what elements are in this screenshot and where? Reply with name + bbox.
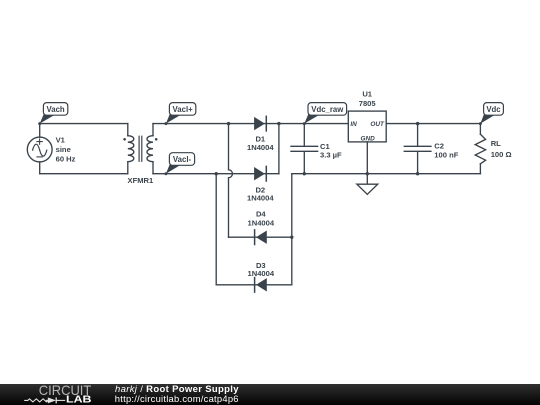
svg-text:Vacl-: Vacl- bbox=[173, 155, 192, 164]
svg-text:Vacl+: Vacl+ bbox=[173, 105, 194, 114]
svg-text:Vach: Vach bbox=[46, 105, 64, 114]
wire right bridge vertical bbox=[291, 174, 293, 285]
node Vach bbox=[38, 103, 68, 126]
svg-text:http://circuitlab.com/catp4p6: http://circuitlab.com/catp4p6 bbox=[115, 393, 239, 404]
wire node A vertical with hop bbox=[229, 124, 233, 238]
diode D4 bbox=[255, 230, 267, 245]
node Vdc bbox=[479, 103, 504, 126]
footer bar bbox=[0, 384, 540, 405]
svg-text:1N4004: 1N4004 bbox=[247, 269, 274, 278]
capacitor C1 bbox=[291, 124, 318, 176]
svg-text:60 Hz: 60 Hz bbox=[56, 154, 76, 163]
footer logo symbol bbox=[24, 399, 52, 402]
svg-text:100 Ω: 100 Ω bbox=[491, 150, 512, 159]
node Vacl+ bbox=[164, 103, 195, 126]
svg-text:XFMR1: XFMR1 bbox=[128, 176, 155, 185]
label D4 value bbox=[247, 210, 274, 228]
label RL value bbox=[491, 139, 512, 159]
diode D2 bbox=[254, 166, 266, 181]
svg-text:OUT: OUT bbox=[370, 121, 385, 128]
label U1 value bbox=[359, 89, 377, 108]
svg-text:7805: 7805 bbox=[359, 99, 377, 108]
svg-text:3.3 µF: 3.3 µF bbox=[320, 150, 342, 159]
diode D1 bbox=[254, 116, 266, 131]
label V1 value bbox=[56, 135, 76, 163]
svg-text:C2: C2 bbox=[434, 141, 444, 150]
wire U1 GND pin bbox=[366, 142, 368, 184]
wire bottom secondary segment bbox=[153, 173, 279, 175]
svg-text:1N4004: 1N4004 bbox=[247, 219, 274, 228]
svg-text:100 nF: 100 nF bbox=[434, 150, 458, 159]
svg-text:Vdc_raw: Vdc_raw bbox=[311, 105, 344, 114]
transformer XFMR1 bbox=[123, 124, 157, 174]
node D4 junction dot bbox=[290, 236, 293, 239]
wire V1 bottom stub bbox=[39, 162, 41, 174]
diode D3 bbox=[255, 278, 267, 293]
node U1 GND junction dot bbox=[366, 172, 369, 175]
resistor RL bbox=[475, 124, 485, 174]
svg-text:Vdc: Vdc bbox=[486, 105, 501, 114]
node Vacl- bbox=[164, 153, 194, 176]
node Vdc_raw bbox=[303, 103, 347, 126]
voltage source V1 bbox=[27, 137, 52, 162]
wire top secondary segment bbox=[153, 123, 348, 125]
svg-text:1N4004: 1N4004 bbox=[247, 193, 274, 202]
svg-text:U1: U1 bbox=[362, 89, 372, 98]
label C2 value bbox=[434, 141, 458, 159]
svg-text:D4: D4 bbox=[256, 210, 266, 219]
wire D3 row bbox=[216, 284, 292, 286]
label D3 value bbox=[247, 261, 274, 278]
capacitor C2 bbox=[404, 122, 431, 175]
svg-text:LAB: LAB bbox=[66, 395, 92, 405]
IC U1 7805 regulator box bbox=[348, 111, 386, 142]
svg-text:V1: V1 bbox=[56, 135, 66, 144]
svg-text:GND: GND bbox=[360, 136, 375, 143]
wire D3 left vertical bbox=[215, 174, 217, 285]
wire bottom left segment bbox=[40, 173, 128, 175]
node A junction dot bbox=[227, 122, 230, 125]
wire D4 row bbox=[229, 236, 292, 238]
label D1 value bbox=[247, 135, 274, 153]
label C1 value bbox=[320, 142, 342, 160]
wire D2 cathode vertical bbox=[278, 124, 280, 174]
svg-text:RL: RL bbox=[491, 139, 501, 148]
wire V1 top stub bbox=[39, 124, 41, 138]
ground bbox=[357, 184, 378, 194]
svg-text:IN: IN bbox=[350, 121, 357, 128]
wire U1 OUT segment bbox=[386, 123, 480, 125]
wire top left segment bbox=[40, 123, 128, 125]
label D2 value bbox=[247, 185, 274, 202]
svg-text:sine: sine bbox=[56, 145, 71, 154]
svg-text:1N4004: 1N4004 bbox=[247, 143, 274, 152]
node B junction dot bbox=[277, 122, 280, 125]
wire ground rail bbox=[292, 173, 481, 175]
node Vacl- junction dot bbox=[215, 172, 218, 175]
